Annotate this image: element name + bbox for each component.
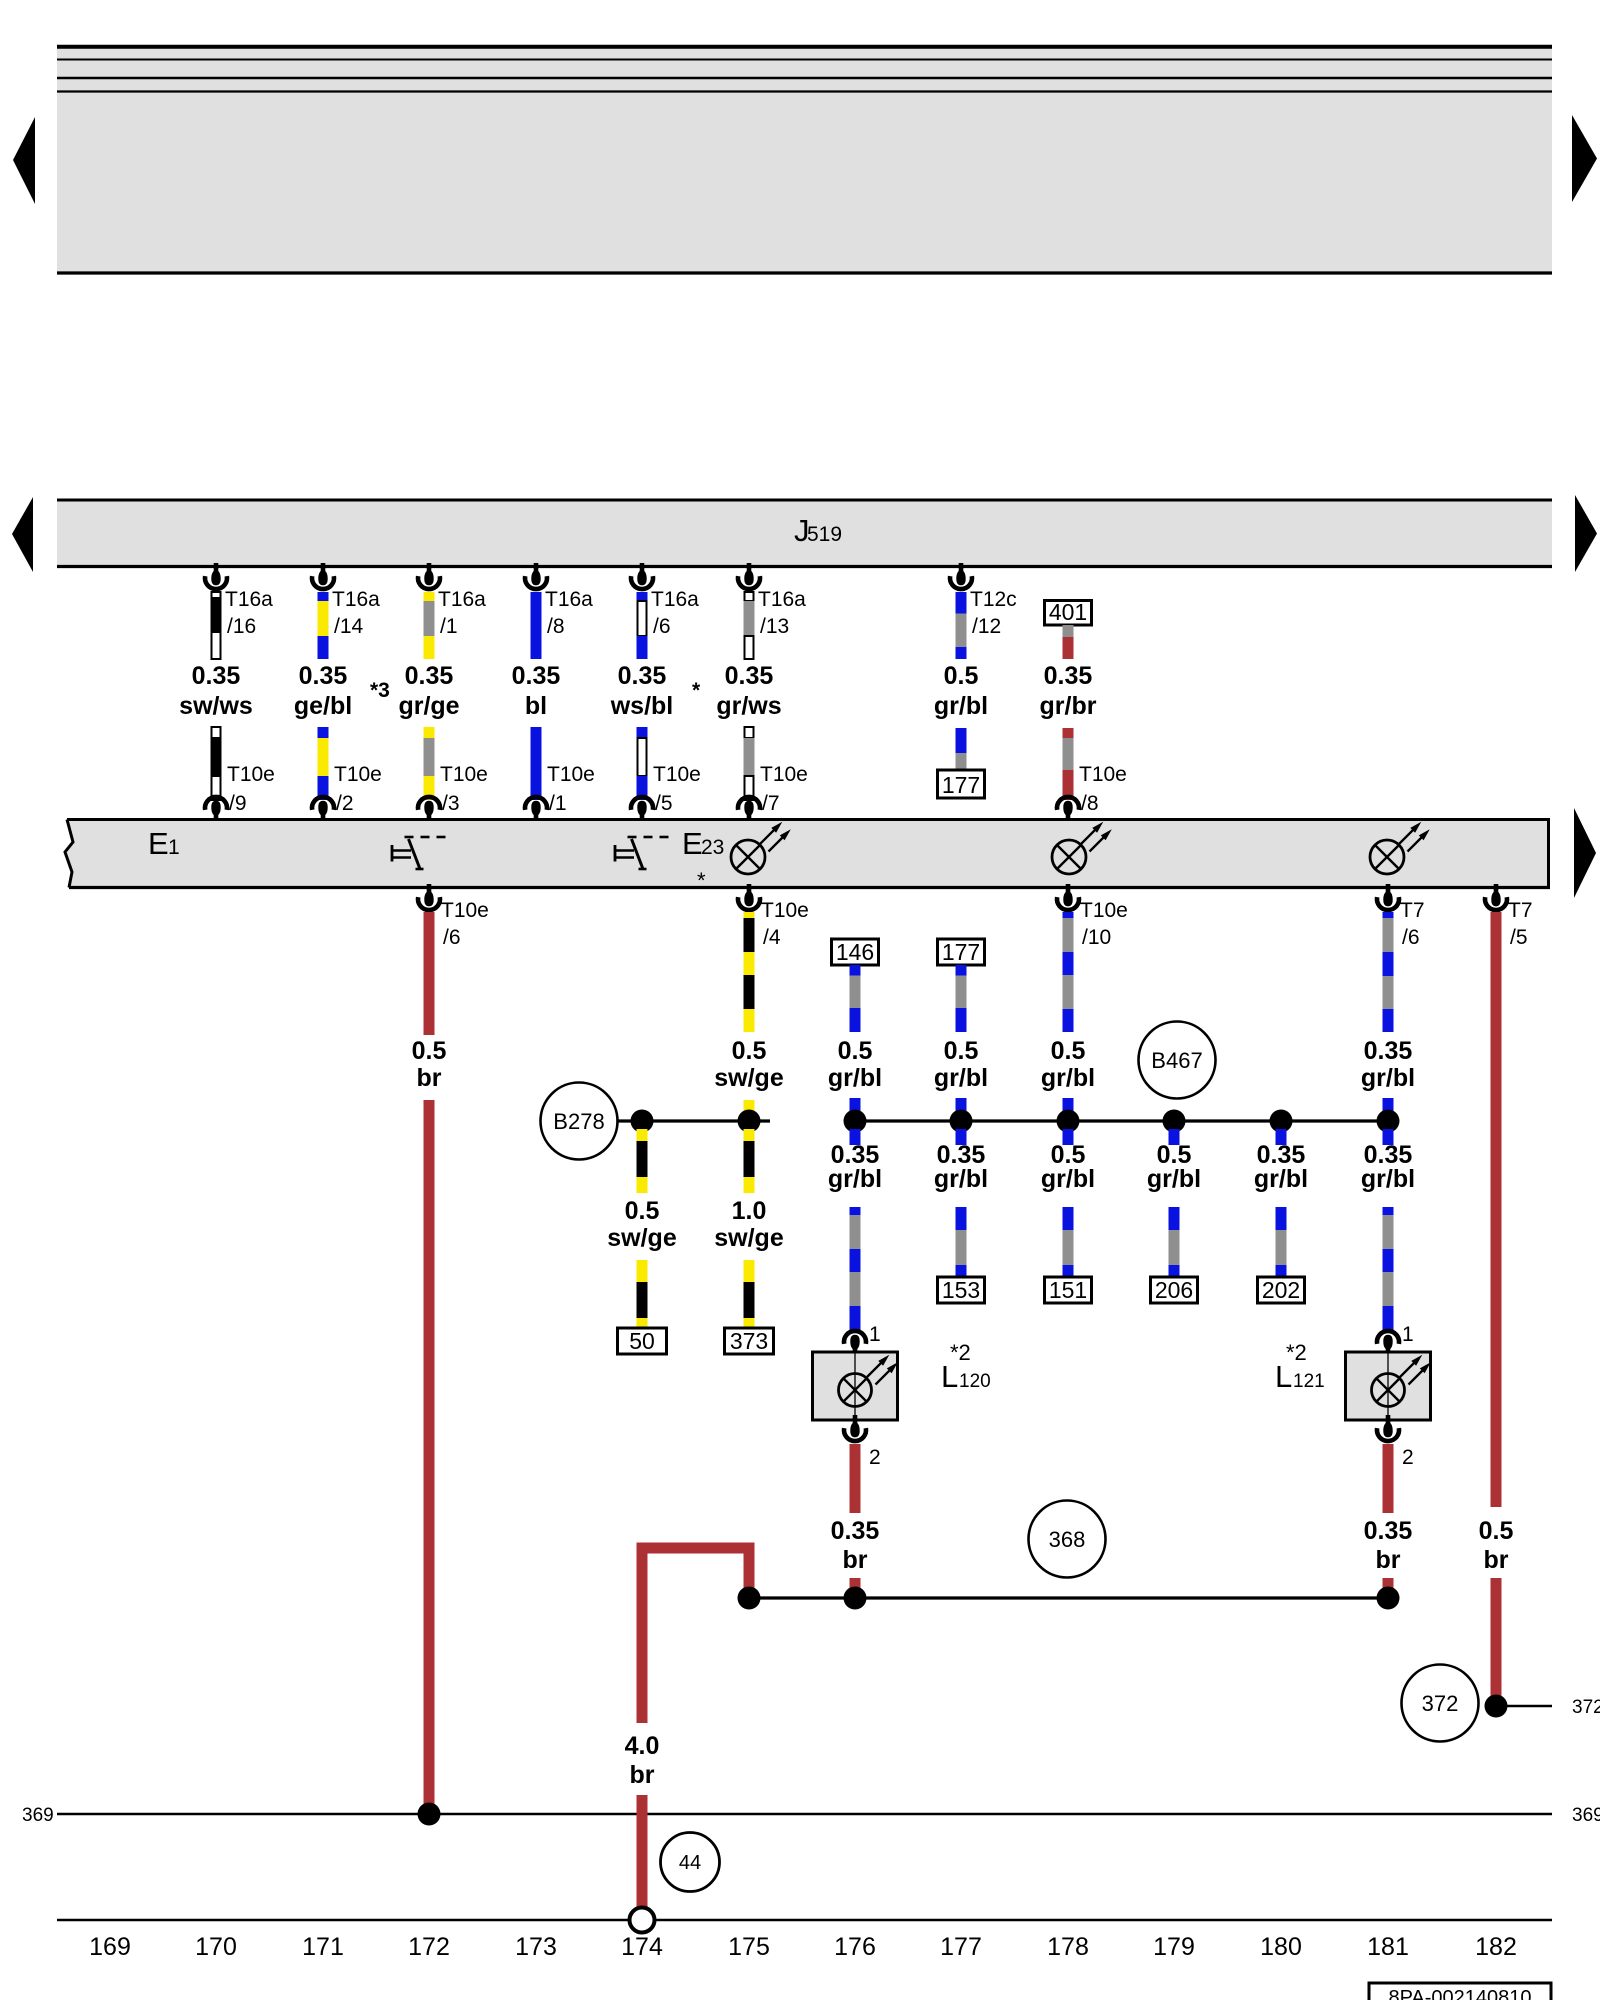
bottom frame line	[57, 1919, 1552, 1922]
wire gr/bl stub below node (col 181)	[1383, 1129, 1394, 1145]
terminal box 177 (lower)	[938, 939, 985, 965]
wire 0.5 br lower run (col 182)	[1491, 1578, 1502, 1706]
svg-text:519: 519	[807, 523, 842, 546]
wire 0.5 gr/bl to terminal 151	[1063, 1207, 1074, 1277]
terminal box 202	[1258, 1277, 1305, 1303]
wire 0.35 gr/bl (col 181) upper segment	[1383, 912, 1394, 1032]
wire sw/ge below node (col 175)	[744, 1129, 755, 1193]
svg-text:L: L	[941, 1359, 958, 1394]
wire size label 0.35 gr/bl (row C col 177)	[934, 1141, 988, 1193]
svg-text:/1: /1	[549, 792, 567, 815]
illumination lamp symbol (col 181)	[1370, 822, 1430, 874]
wire 0.5 br (col 172) long run to line 369	[424, 1100, 435, 1814]
svg-text:ge/bl: ge/bl	[294, 692, 352, 720]
svg-text:0.35: 0.35	[299, 662, 348, 690]
svg-text:/7: /7	[762, 792, 780, 815]
svg-text:179: 179	[1153, 1933, 1195, 1961]
illumination lamp symbol in E23	[731, 822, 791, 874]
svg-text:sw/ws: sw/ws	[179, 692, 253, 720]
wire gr/bl stub above node (col 181)	[1383, 1098, 1394, 1121]
wire gr/bl stub below node (col 176)	[850, 1129, 861, 1145]
wire 0.35 sw/ws wire lower segment	[211, 727, 222, 800]
wire 0.35 gr/bl to lamp L121	[1383, 1207, 1394, 1332]
svg-text:8PA-002140810: 8PA-002140810	[1388, 1987, 1531, 2000]
connector T16a/14 on J519	[312, 563, 380, 638]
ground bus 368 wire	[749, 1596, 1388, 1599]
node on B278 bus (col 175)	[738, 1110, 761, 1133]
current track line 369	[57, 1813, 1552, 1816]
connector T7/5 under E1	[1485, 884, 1533, 949]
wire 0.5 sw/ge to terminal 50	[637, 1260, 648, 1329]
svg-text:gr/bl: gr/bl	[934, 1165, 988, 1193]
wire 0.35 br stub to node (col 181)	[1383, 1578, 1394, 1598]
svg-text:206: 206	[1155, 1277, 1193, 1303]
svg-text:177: 177	[942, 939, 980, 965]
svg-text:401: 401	[1049, 599, 1087, 625]
svg-text:br: br	[630, 1761, 655, 1789]
wire 0.5 sw/ge (col 175) upper segment	[744, 912, 755, 1032]
wire size label 4.0 br	[625, 1732, 660, 1789]
current track number 171	[302, 1933, 344, 1961]
terminal box 373	[725, 1328, 774, 1354]
svg-text:T10e: T10e	[334, 763, 382, 786]
node on B467 bus (col 178)	[1057, 1110, 1080, 1133]
svg-text:sw/ge: sw/ge	[607, 1224, 677, 1252]
svg-text:/16: /16	[227, 615, 256, 638]
connector T16a/16 on J519	[205, 563, 273, 638]
power supply rail band	[57, 45, 1552, 274]
wire 0.35 br stub to node (col 176)	[850, 1578, 861, 1598]
svg-text:gr/bl: gr/bl	[1041, 1064, 1095, 1092]
svg-text:/8: /8	[1081, 792, 1099, 815]
svg-text:/14: /14	[334, 615, 364, 638]
wire 4.0 br elbow run	[642, 1548, 749, 1723]
wire size label 0.35 gr/bl (row C col 176)	[828, 1141, 882, 1193]
wire size label 0.5 sw/ge (col 174)	[607, 1197, 677, 1252]
connector T12c/12 on J519	[950, 563, 1017, 638]
wire 0.35 ge/bl wire lower segment	[318, 727, 329, 800]
svg-text:sw/ge: sw/ge	[714, 1064, 784, 1092]
wire 0.35 gr/bl to terminal 153	[956, 1207, 967, 1277]
switch module E1 band	[65, 820, 1550, 888]
svg-text:T10e: T10e	[760, 763, 808, 786]
current track number 179	[1153, 1933, 1195, 1961]
lamp L121 (footwell light)	[1275, 1323, 1431, 1469]
svg-text:174: 174	[621, 1933, 663, 1961]
label E23	[682, 826, 724, 861]
wire gr/bl stub below node (col 179)	[1169, 1129, 1180, 1145]
wire size label 0.35 gr/bl (row B col 181)	[1361, 1037, 1415, 1092]
wire gr/bl stub below node (col 178)	[1063, 1129, 1074, 1145]
svg-text:181: 181	[1367, 1933, 1409, 1961]
svg-text:/12: /12	[972, 615, 1001, 638]
svg-text:121: 121	[1293, 1371, 1325, 1392]
svg-text:gr/bl: gr/bl	[1254, 1165, 1308, 1193]
svg-text:0.5: 0.5	[838, 1037, 873, 1065]
svg-text:/4: /4	[763, 926, 781, 949]
current track number 180	[1260, 1933, 1302, 1961]
svg-text:178: 178	[1047, 1933, 1089, 1961]
svg-text:1: 1	[1402, 1323, 1414, 1346]
connector T10e/3 on E1	[418, 763, 488, 823]
ground designation 44 circle	[661, 1833, 720, 1892]
current track number 175	[728, 1933, 770, 1961]
E1 continuation arrow right	[1574, 808, 1596, 898]
svg-text:br: br	[843, 1546, 868, 1574]
svg-text:368: 368	[1049, 1527, 1086, 1552]
svg-text:bl: bl	[525, 692, 547, 720]
svg-text:sw/ge: sw/ge	[714, 1224, 784, 1252]
svg-text:0.5: 0.5	[1051, 1037, 1086, 1065]
svg-text:T12c: T12c	[970, 588, 1017, 611]
svg-text:B467: B467	[1151, 1048, 1202, 1073]
svg-text:44: 44	[679, 1852, 701, 1874]
wire 0.35 gr/bl to terminal 202	[1276, 1207, 1287, 1277]
svg-text:173: 173	[515, 1933, 557, 1961]
svg-text:T16a: T16a	[225, 588, 273, 611]
svg-text:0.35: 0.35	[618, 662, 667, 690]
svg-text:br: br	[1376, 1546, 1401, 1574]
connection B278 circle	[541, 1083, 618, 1160]
wire 0.5 br (col 182) upper run	[1491, 912, 1502, 1507]
wire 0.5 gr/bl under box 146	[850, 965, 861, 1032]
B278 bus wire	[618, 1119, 771, 1122]
node on bus 368 (col 175)	[738, 1587, 761, 1610]
connector T16a/8 on J519	[525, 563, 593, 638]
wire 0.35 gr/br upper segment	[1063, 625, 1074, 659]
svg-text:br: br	[1484, 1546, 1509, 1574]
node on B467 bus (col 177)	[950, 1110, 973, 1133]
footnote * (E23)	[697, 868, 706, 893]
svg-text:0.5: 0.5	[625, 1197, 660, 1225]
svg-text:0.35: 0.35	[192, 662, 241, 690]
svg-text:372: 372	[1572, 1697, 1600, 1718]
svg-text:176: 176	[834, 1933, 876, 1961]
terminal box 151	[1045, 1277, 1092, 1303]
current track number 182	[1475, 1933, 1517, 1961]
label 369 right margin	[1572, 1805, 1600, 1826]
svg-text:0.35: 0.35	[725, 662, 774, 690]
svg-text:T10e: T10e	[1080, 899, 1128, 922]
terminal box 177 (upper)	[938, 770, 985, 798]
svg-text:0.5: 0.5	[944, 662, 979, 690]
svg-text:369: 369	[22, 1805, 54, 1826]
terminal box 50	[618, 1328, 667, 1354]
wire size label 0.5 gr/bl (row B col 178)	[1041, 1037, 1095, 1092]
wire gr/bl stub above node (col 177)	[956, 1098, 967, 1121]
svg-text:373: 373	[730, 1328, 768, 1354]
wire 0.35 bl wire lower segment	[531, 727, 542, 800]
wire size label 0.5 gr/bl (row B col 177)	[934, 1037, 988, 1092]
svg-text:L: L	[1275, 1359, 1292, 1394]
wire size label 0.35 sw/ws	[179, 662, 253, 720]
svg-text:50: 50	[629, 1328, 655, 1354]
terminal box 401	[1045, 599, 1092, 625]
svg-text:B278: B278	[553, 1109, 604, 1134]
svg-text:E: E	[682, 826, 703, 861]
svg-text:/9: /9	[229, 792, 247, 815]
svg-text:171: 171	[302, 1933, 344, 1961]
svg-text:*: *	[692, 679, 701, 702]
wire size label 0.35 bl	[512, 662, 561, 720]
current track number 169	[89, 1933, 131, 1961]
line 372 stub	[1496, 1705, 1552, 1708]
ground designation 368 circle	[1029, 1501, 1106, 1578]
ground connection symbol	[630, 1908, 655, 1933]
terminal box 153	[938, 1277, 985, 1303]
current track number 178	[1047, 1933, 1089, 1961]
svg-text:/3: /3	[442, 792, 460, 815]
svg-text:1: 1	[168, 836, 180, 859]
node on bus 368 (col 176)	[844, 1587, 867, 1610]
svg-text:gr/bl: gr/bl	[1147, 1165, 1201, 1193]
svg-text:170: 170	[195, 1933, 237, 1961]
node on B467 bus (col 179)	[1163, 1110, 1186, 1133]
connector T10e/5 on E1	[631, 763, 701, 823]
svg-text:ws/bl: ws/bl	[610, 692, 674, 720]
wire size label 0.5 gr/bl (row C col 179)	[1147, 1141, 1201, 1193]
svg-text:177: 177	[942, 772, 980, 798]
wire gr/bl stub above node (col 178)	[1063, 1098, 1074, 1121]
wire 0.35 ws/bl wire lower segment	[637, 727, 648, 800]
connector T10e/4 under E1	[738, 884, 809, 949]
connector T10e/6 under E1	[418, 884, 489, 949]
connector T16a/1 on J519	[418, 563, 486, 638]
wire 4.0 br to ground	[637, 1795, 648, 1908]
current track number 174	[621, 1933, 663, 1961]
wire gr/bl stub below node (col 177)	[956, 1129, 967, 1145]
svg-text:/5: /5	[1510, 926, 1528, 949]
wire size label 0.35 gr/bl (row C col 181)	[1361, 1141, 1415, 1193]
svg-text:gr/br: gr/br	[1040, 692, 1097, 720]
svg-text:23: 23	[701, 836, 724, 859]
svg-text:1.0: 1.0	[732, 1197, 767, 1225]
current track number 177	[940, 1933, 982, 1961]
svg-text:0.5: 0.5	[944, 1037, 979, 1065]
wire size label 0.35 gr/bl (row C col 180)	[1254, 1141, 1308, 1193]
connector T10e/8 on E1	[1057, 763, 1127, 823]
svg-text:0.35: 0.35	[1364, 1037, 1413, 1065]
svg-text:gr/bl: gr/bl	[828, 1064, 882, 1092]
svg-text:gr/ws: gr/ws	[716, 692, 781, 720]
svg-text:*3: *3	[370, 679, 390, 702]
wire 0.35 gr/bl to lamp L120	[850, 1207, 861, 1332]
svg-text:202: 202	[1262, 1277, 1300, 1303]
node on B278 bus (col 174)	[631, 1110, 654, 1133]
svg-text:/6: /6	[443, 926, 461, 949]
wire size label 0.5 sw/ge (row B col 175)	[714, 1037, 784, 1092]
svg-text:153: 153	[942, 1277, 980, 1303]
svg-text:/13: /13	[760, 615, 789, 638]
wire size label 0.35 gr/ws	[716, 662, 781, 720]
svg-text:0.35: 0.35	[831, 1517, 880, 1545]
current track number 181	[1367, 1933, 1409, 1961]
svg-text:169: 169	[89, 1933, 131, 1961]
drawing number box	[1369, 1983, 1551, 2000]
svg-text:/2: /2	[336, 792, 354, 815]
wire 0.35 gr/ge wire upper segment	[424, 592, 435, 659]
wire size label 0.35 gr/br	[1040, 662, 1097, 720]
lamp L120 (footwell light)	[813, 1323, 991, 1469]
svg-text:182: 182	[1475, 1933, 1517, 1961]
svg-text:E: E	[148, 826, 169, 861]
svg-text:gr/bl: gr/bl	[1041, 1165, 1095, 1193]
wire 0.35 gr/ws wire lower segment	[744, 727, 755, 800]
terminal box 206	[1151, 1277, 1198, 1303]
svg-text:0.5: 0.5	[412, 1037, 447, 1065]
wire 0.35 gr/br lower segment	[1063, 728, 1074, 800]
J519 continuation arrow left	[12, 497, 33, 572]
wire sw/ge below node (col 174)	[637, 1129, 648, 1193]
svg-text:T10e: T10e	[547, 763, 595, 786]
svg-text:372: 372	[1422, 1691, 1459, 1716]
connector T10e/1 on E1	[525, 763, 595, 823]
svg-text:/6: /6	[653, 615, 671, 638]
wire 0.5 gr/bl stub to terminal 177	[956, 728, 967, 770]
wire 0.35 gr/ge wire lower segment	[424, 727, 435, 800]
connection B467 circle	[1139, 1022, 1216, 1099]
connector T7/6 under E1	[1377, 884, 1425, 949]
wire 0.5 gr/bl under box 177	[956, 965, 967, 1032]
label 369 left margin	[22, 1805, 54, 1826]
wire size label 0.35 br (col 176)	[831, 1517, 880, 1574]
wire size label 0.5 gr/bl	[934, 662, 988, 720]
wire size label 0.35 ws/bl	[610, 662, 674, 720]
B467 bus wire	[855, 1119, 1388, 1122]
svg-text:2: 2	[869, 1446, 881, 1469]
svg-text:T16a: T16a	[758, 588, 806, 611]
wire gr/bl stub above node (col 176)	[850, 1098, 861, 1121]
svg-text:gr/ge: gr/ge	[398, 692, 459, 720]
svg-text:T10e: T10e	[1079, 763, 1127, 786]
svg-text:2: 2	[1402, 1446, 1414, 1469]
svg-text:T16a: T16a	[332, 588, 380, 611]
svg-text:T10e: T10e	[653, 763, 701, 786]
node on B467 bus (col 180)	[1270, 1110, 1293, 1133]
svg-text:/6: /6	[1402, 926, 1420, 949]
svg-text:151: 151	[1049, 1277, 1087, 1303]
top band continuation arrow right	[1572, 115, 1597, 202]
wire 1.0 sw/ge to terminal 373	[744, 1260, 755, 1329]
svg-text:gr/bl: gr/bl	[1361, 1064, 1415, 1092]
svg-text:0.5: 0.5	[1479, 1517, 1514, 1545]
wire size label 0.5 br (col 182)	[1479, 1517, 1514, 1574]
wire 0.35 ws/bl wire upper segment	[637, 592, 648, 659]
wire 0.35 gr/ws wire upper segment	[744, 592, 755, 659]
wire 0.5 gr/bl wire upper segment	[956, 592, 967, 659]
footnote * (col 174)	[692, 679, 701, 702]
label J519	[794, 513, 842, 548]
wire size label 0.5 br (row B col 172)	[412, 1037, 447, 1092]
label 372 right margin	[1572, 1697, 1600, 1718]
current track number 176	[834, 1933, 876, 1961]
svg-text:T10e: T10e	[440, 763, 488, 786]
junction node on line 369	[418, 1803, 441, 1826]
svg-text:T10e: T10e	[761, 899, 809, 922]
svg-text:/5: /5	[655, 792, 673, 815]
control unit J519 band	[57, 499, 1552, 568]
wire size label 0.5 gr/bl (row C col 178)	[1041, 1141, 1095, 1193]
svg-text:T16a: T16a	[651, 588, 699, 611]
svg-text:gr/bl: gr/bl	[828, 1165, 882, 1193]
svg-text:T7: T7	[1400, 899, 1425, 922]
wire gr/bl stub below node (col 180)	[1276, 1129, 1287, 1145]
connector T16a/6 on J519	[631, 563, 699, 638]
svg-text:gr/bl: gr/bl	[1361, 1165, 1415, 1193]
svg-text:/8: /8	[547, 615, 565, 638]
svg-text:0.35: 0.35	[1044, 662, 1093, 690]
svg-text:T10e: T10e	[441, 899, 489, 922]
node on bus 368 (col 181)	[1377, 1587, 1400, 1610]
svg-text:T16a: T16a	[545, 588, 593, 611]
wire size label 1.0 sw/ge (col 175)	[714, 1197, 784, 1252]
svg-text:0.35: 0.35	[405, 662, 454, 690]
svg-text:1: 1	[869, 1323, 881, 1346]
svg-text:*: *	[697, 868, 706, 893]
wire 0.35 bl wire upper segment	[531, 592, 542, 659]
svg-text:gr/bl: gr/bl	[934, 692, 988, 720]
connector T10e/7 on E1	[738, 763, 808, 823]
connector T10e/9 on E1	[205, 763, 275, 823]
svg-text:180: 180	[1260, 1933, 1302, 1961]
node on line 372	[1485, 1695, 1508, 1718]
current track number 170	[195, 1933, 237, 1961]
svg-text:4.0: 4.0	[625, 1732, 660, 1760]
svg-text:120: 120	[959, 1371, 991, 1392]
node on B467 bus (col 176)	[844, 1110, 867, 1133]
wire 0.5 br (col 172) upper run	[424, 912, 435, 1035]
connector T16a/13 on J519	[738, 563, 806, 638]
illumination lamp symbol (col 178)	[1052, 822, 1112, 874]
current track number 173	[515, 1933, 557, 1961]
ground designation 372 circle	[1402, 1665, 1479, 1742]
svg-text:T16a: T16a	[438, 588, 486, 611]
svg-text:br: br	[417, 1064, 442, 1092]
node on B467 bus (col 181)	[1377, 1110, 1400, 1133]
light switch symbol (E1)	[392, 837, 446, 869]
switch symbol (E23)	[615, 837, 669, 869]
wire size label 0.5 gr/bl (row B col 176)	[828, 1037, 882, 1092]
top band continuation arrow left	[13, 117, 35, 204]
svg-text:0.35: 0.35	[1364, 1517, 1413, 1545]
wire 0.5 sw/ge stub above node	[744, 1100, 755, 1121]
svg-text:0.5: 0.5	[732, 1037, 767, 1065]
svg-text:175: 175	[728, 1933, 770, 1961]
wire 0.35 ge/bl wire upper segment	[318, 592, 329, 659]
svg-text:/10: /10	[1082, 926, 1111, 949]
svg-text:gr/bl: gr/bl	[934, 1064, 988, 1092]
wire 0.5 gr/bl to terminal 206	[1169, 1207, 1180, 1277]
svg-text:369: 369	[1572, 1805, 1600, 1826]
terminal box 146	[832, 939, 879, 965]
svg-text:T7: T7	[1508, 899, 1533, 922]
svg-text:T10e: T10e	[227, 763, 275, 786]
svg-text:177: 177	[940, 1933, 982, 1961]
connector T10e/10 under E1	[1057, 884, 1128, 949]
connector T10e/2 on E1	[312, 763, 382, 823]
svg-text:146: 146	[836, 939, 874, 965]
current track number 172	[408, 1933, 450, 1961]
wire size label 0.35 ge/bl	[294, 662, 352, 720]
wire 0.35 sw/ws wire upper segment	[211, 592, 222, 659]
footnote *3	[370, 679, 390, 702]
wire 0.35 br below L121	[1383, 1444, 1394, 1513]
svg-text:0.35: 0.35	[512, 662, 561, 690]
label E1	[148, 826, 180, 861]
J519 continuation arrow right	[1575, 495, 1597, 572]
wire 0.5 gr/bl (col 178) upper segment	[1063, 912, 1074, 1032]
svg-text:/1: /1	[440, 615, 458, 638]
